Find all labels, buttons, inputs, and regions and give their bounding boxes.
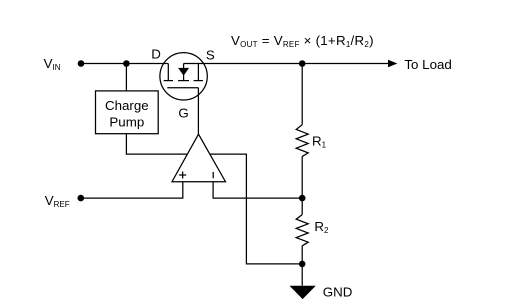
source contact	[197, 64, 199, 81]
wire charge pump bottom to op-amp V+	[126, 134, 198, 154]
resistor R2	[296, 215, 308, 246]
charge pump box	[96, 91, 159, 134]
svg-text:D: D	[151, 47, 161, 62]
body diode arrowhead	[178, 68, 189, 76]
svg-text:To Load: To Load	[404, 57, 451, 72]
node ground junction	[299, 261, 306, 268]
node charge pump tap junction	[123, 60, 130, 67]
svg-text:GND: GND	[323, 284, 353, 299]
wire gate plate to op-amp output	[197, 88, 199, 135]
To Load arrowhead	[388, 60, 397, 67]
svg-text:Charge: Charge	[105, 98, 149, 113]
transistor Q1 internals	[164, 64, 203, 88]
wire VIN to MOSFET drain	[81, 63, 168, 65]
wire VREF to op-amp non-inverting input	[81, 182, 183, 198]
wire R2 top lead	[301, 198, 303, 215]
node feedback junction	[299, 195, 306, 202]
op-amp plus mark	[179, 172, 186, 179]
wire feedback node to op-amp inverting input	[213, 182, 302, 198]
wire op-amp right pin to ground node	[199, 154, 302, 264]
svg-text:S: S	[206, 47, 215, 62]
transistor Q1 MOSFET circle	[160, 53, 207, 100]
gate plate	[167, 87, 198, 89]
wire ground node to GND symbol	[301, 264, 303, 286]
svg-text:Pump: Pump	[109, 114, 144, 129]
node output junction	[299, 60, 306, 67]
wire MOSFET source to load arrow	[184, 63, 389, 65]
svg-text:G: G	[178, 105, 188, 120]
op-amp U1	[172, 134, 226, 182]
ground symbol	[290, 286, 316, 299]
node VREF terminal dot	[78, 195, 85, 202]
node VIN terminal dot	[78, 60, 85, 67]
wire output node drop to R1	[301, 64, 303, 125]
wire R1 bottom to feedback node	[301, 156, 303, 198]
wire R2 bottom to ground node	[301, 246, 303, 264]
resistor R1	[296, 125, 308, 157]
wire charge pump tap drop	[125, 64, 127, 91]
op-amp minus mark	[212, 172, 214, 178]
drain contact	[167, 64, 169, 81]
body contact with diode arrow	[183, 64, 185, 69]
